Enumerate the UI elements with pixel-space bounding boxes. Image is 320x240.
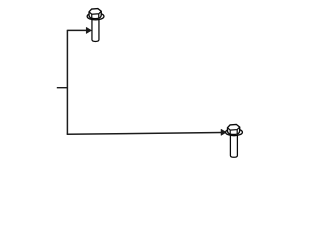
bolt (lower right)	[226, 124, 243, 157]
bolt (upper)	[87, 9, 104, 42]
tick mark on vertical line	[57, 87, 68, 89]
arrowhead to top bolt	[86, 27, 91, 33]
leader line: top horizontal segment	[67, 29, 87, 31]
arrowhead to bottom bolt	[221, 129, 226, 135]
leader line: bottom horizontal segment	[67, 133, 222, 135]
leader line: vertical segment	[66, 30, 68, 135]
